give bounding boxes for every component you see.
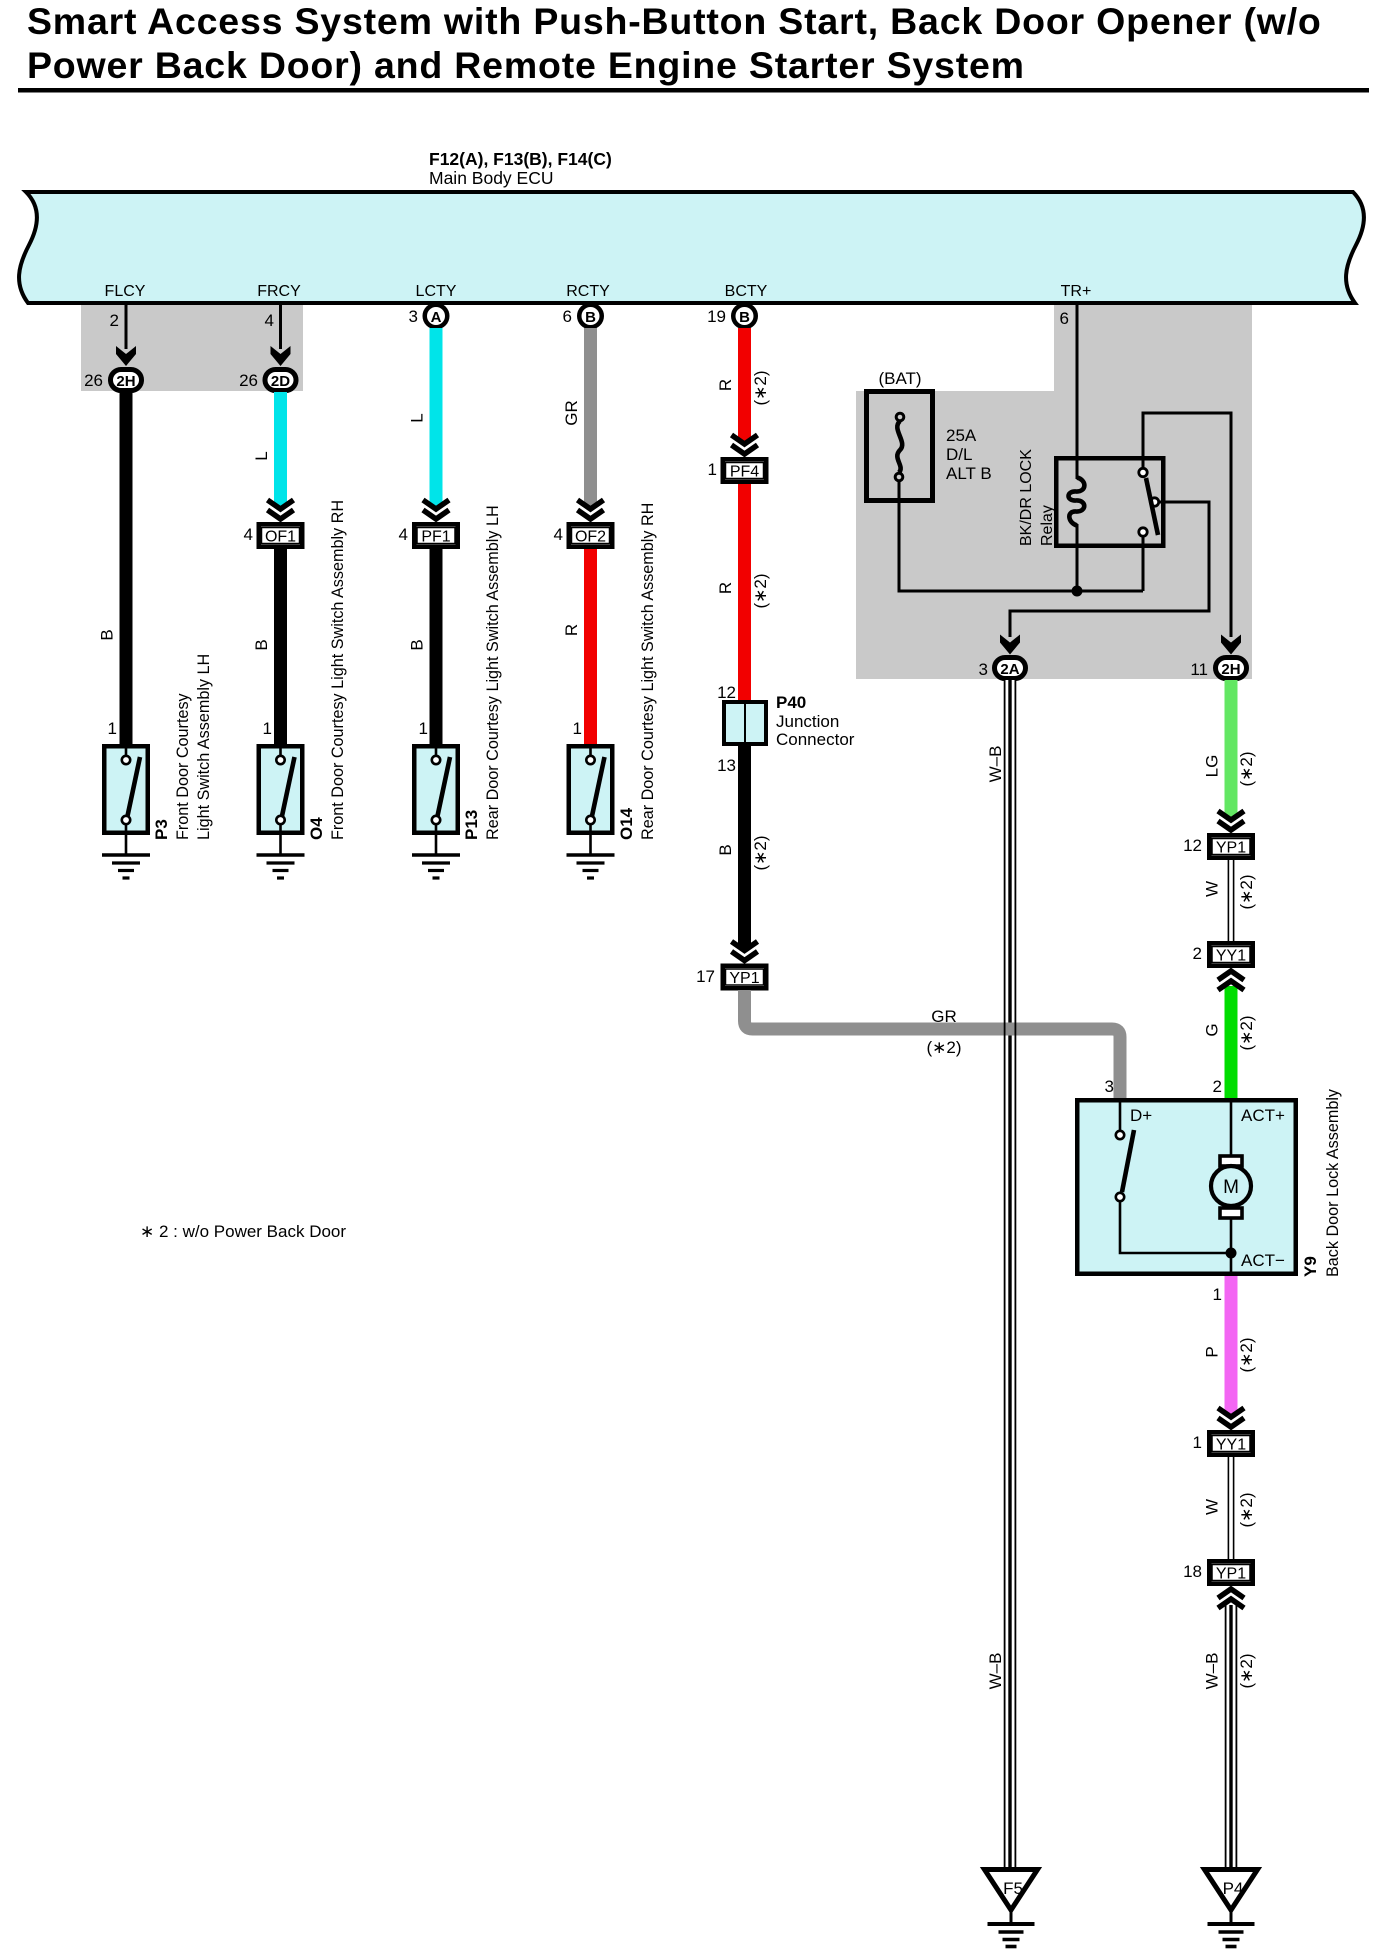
fuse rating label 25A D/L ALT B bbox=[946, 426, 992, 483]
svg-text:L: L bbox=[252, 451, 271, 460]
connector YY1 (1) bbox=[1209, 1432, 1253, 1455]
relay switch lever bbox=[1146, 478, 1158, 535]
svg-text:Connector: Connector bbox=[776, 730, 855, 749]
ground F5 bbox=[985, 1870, 1038, 1947]
chevron arrow out of YP1 (18) bbox=[1218, 1589, 1244, 1608]
svg-text:2: 2 bbox=[110, 311, 119, 330]
svg-text:ACT+: ACT+ bbox=[1241, 1106, 1285, 1125]
svg-text:B: B bbox=[716, 844, 735, 855]
wire B black FRCY bbox=[274, 549, 287, 746]
svg-text:YP1: YP1 bbox=[729, 970, 759, 987]
svg-text:YY1: YY1 bbox=[1216, 948, 1246, 965]
svg-text:2H: 2H bbox=[116, 373, 135, 390]
svg-text:G: G bbox=[1203, 1023, 1222, 1036]
svg-text:L: L bbox=[408, 413, 427, 422]
svg-text:P13: P13 bbox=[462, 810, 481, 840]
connector circle B bbox=[733, 305, 756, 328]
svg-text:(∗2): (∗2) bbox=[1237, 1653, 1256, 1688]
wire GR gray RCTY bbox=[584, 328, 597, 508]
svg-text:D/L: D/L bbox=[946, 445, 972, 464]
wire relay top contact to 2H bbox=[1143, 413, 1231, 637]
svg-text:LG: LG bbox=[1203, 755, 1222, 778]
ground P4 bbox=[1205, 1870, 1258, 1947]
chevron arrow into OF1 bbox=[268, 500, 294, 519]
door switch inside Y9 bbox=[1116, 1100, 1231, 1253]
connector OF1 bbox=[259, 524, 303, 547]
connector band: Main Body ECU F12/F13/F14 bbox=[19, 192, 1364, 303]
connector YP1 (12) bbox=[1209, 835, 1253, 858]
svg-text:Front Door Courtesy: Front Door Courtesy bbox=[174, 692, 192, 840]
svg-text:B: B bbox=[252, 639, 271, 650]
wire fuse bottom to junction bbox=[899, 481, 1143, 591]
svg-text:(∗2): (∗2) bbox=[1237, 751, 1256, 786]
label Main Body ECU F12(A) F13(B) F14(C) bbox=[429, 149, 612, 188]
svg-text:M: M bbox=[1223, 1177, 1239, 1198]
back door lock assembly Y9 bbox=[1077, 1100, 1296, 1274]
wire R red BCTY upper bbox=[738, 328, 751, 443]
svg-text:2: 2 bbox=[1193, 944, 1202, 963]
svg-text:ALT B: ALT B bbox=[946, 464, 992, 483]
svg-text:6: 6 bbox=[563, 307, 572, 326]
svg-text:(∗2): (∗2) bbox=[1237, 874, 1256, 909]
svg-text:12: 12 bbox=[1183, 836, 1202, 855]
svg-text:3: 3 bbox=[409, 307, 418, 326]
svg-text:OF1: OF1 bbox=[265, 529, 296, 546]
svg-text:Power Back Door) and Remote En: Power Back Door) and Remote Engine Start… bbox=[27, 44, 1025, 86]
chevron arrow out of YY1 bbox=[1218, 971, 1244, 990]
svg-text:W: W bbox=[1203, 881, 1222, 897]
svg-text:1: 1 bbox=[573, 719, 582, 738]
switch P13 Rear Door Courtesy Light Switch Assembly LH (with ground) bbox=[412, 746, 460, 878]
svg-text:6: 6 bbox=[1060, 309, 1069, 328]
svg-text:2: 2 bbox=[1213, 1077, 1222, 1096]
svg-text:W: W bbox=[1203, 1499, 1222, 1515]
chevron arrow into PF4 bbox=[732, 435, 758, 454]
svg-text:2A: 2A bbox=[1000, 661, 1019, 678]
wire R red BCTY lower bbox=[738, 484, 751, 700]
connector PF4 bbox=[723, 459, 767, 482]
wire LG light green 2H to YP1 bbox=[1225, 680, 1238, 819]
svg-text:GR: GR bbox=[562, 400, 581, 426]
svg-text:26: 26 bbox=[84, 371, 103, 390]
svg-text:1: 1 bbox=[1193, 1433, 1202, 1452]
svg-text:BK/DR LOCK: BK/DR LOCK bbox=[1018, 449, 1035, 546]
svg-text:LCTY: LCTY bbox=[416, 283, 457, 300]
svg-text:Light Switch Assembly LH: Light Switch Assembly LH bbox=[195, 654, 213, 840]
wire W-B (right, YP1 to P4) bbox=[1225, 1605, 1237, 1869]
svg-text:Back Door Lock Assembly: Back Door Lock Assembly bbox=[1324, 1088, 1342, 1277]
connector 2H (26) bbox=[111, 370, 142, 391]
relay switch contact mid bbox=[1150, 498, 1158, 506]
svg-text:4: 4 bbox=[399, 525, 408, 544]
svg-text:O4: O4 bbox=[307, 817, 326, 840]
label P40 Junction Connector bbox=[776, 693, 855, 749]
svg-text:YP1: YP1 bbox=[1216, 1566, 1246, 1583]
svg-text:Rear Door Courtesy Light Switc: Rear Door Courtesy Light Switch Assembly… bbox=[639, 503, 657, 840]
wire relay mid contact to 2A bbox=[1010, 502, 1209, 637]
arrow into 2H bbox=[116, 346, 136, 366]
svg-text:(∗2): (∗2) bbox=[1237, 1337, 1256, 1372]
svg-text:1: 1 bbox=[708, 460, 717, 479]
svg-text:B: B bbox=[98, 629, 117, 640]
connector 2D (26) bbox=[265, 370, 296, 391]
svg-text:3: 3 bbox=[979, 660, 988, 679]
wire G green YY1 to ACT+ bbox=[1225, 986, 1238, 1098]
switch O14 Rear Door Courtesy Light Switch Assembly RH (with ground) bbox=[567, 746, 615, 878]
svg-text:1: 1 bbox=[419, 719, 428, 738]
pin 6 wire TR+ bbox=[1076, 303, 1079, 479]
svg-text:PF1: PF1 bbox=[421, 529, 450, 546]
wire GR gray from YP1 to back door lock D+ bbox=[745, 990, 1121, 1098]
svg-text:4: 4 bbox=[265, 311, 274, 330]
fuse 25A D/L ALT B bbox=[867, 392, 933, 501]
svg-text:TR+: TR+ bbox=[1061, 283, 1092, 300]
svg-text:1: 1 bbox=[1213, 1285, 1222, 1304]
svg-text:RCTY: RCTY bbox=[566, 283, 610, 300]
junction dot bbox=[1072, 586, 1083, 597]
svg-text:4: 4 bbox=[554, 525, 563, 544]
label O14 bbox=[617, 503, 657, 840]
svg-text:Y9: Y9 bbox=[1301, 1256, 1320, 1277]
title bbox=[18, 0, 1369, 93]
svg-text:OF2: OF2 bbox=[575, 529, 606, 546]
svg-text:25A: 25A bbox=[946, 426, 977, 445]
svg-text:F5: F5 bbox=[1003, 1879, 1023, 1898]
wire L cyan FRCY bbox=[274, 392, 287, 508]
chevron arrow into OF2 bbox=[578, 500, 604, 519]
connector YY1 (2) bbox=[1209, 943, 1253, 966]
svg-text:R: R bbox=[716, 379, 735, 391]
wire B black FLCY bbox=[120, 392, 133, 746]
gray shade region left (behind 2H/2D connectors) bbox=[81, 303, 303, 391]
svg-text:1: 1 bbox=[108, 719, 117, 738]
svg-text:11: 11 bbox=[1190, 660, 1208, 679]
svg-text:R: R bbox=[716, 582, 735, 594]
svg-text:YP1: YP1 bbox=[1216, 840, 1246, 857]
relay coil bbox=[1069, 478, 1085, 526]
pin 4 wire bbox=[279, 303, 282, 349]
svg-text:Rear Door Courtesy Light Switc: Rear Door Courtesy Light Switch Assembly… bbox=[484, 505, 502, 840]
connector circle B bbox=[579, 305, 602, 328]
junction connector P40 bbox=[724, 702, 766, 744]
svg-text:ACT−: ACT− bbox=[1241, 1251, 1285, 1270]
connector YP1 (17) bbox=[723, 966, 767, 989]
relay BK/DR LOCK box bbox=[1056, 458, 1163, 546]
svg-text:2D: 2D bbox=[271, 373, 290, 390]
svg-text:A: A bbox=[431, 309, 442, 326]
label P3 bbox=[152, 654, 213, 840]
wire B black LCTY bbox=[430, 549, 443, 746]
svg-text:Junction: Junction bbox=[776, 712, 839, 731]
svg-text:P: P bbox=[1203, 1346, 1222, 1357]
label Y9 Back Door Lock Assembly bbox=[1301, 1088, 1342, 1277]
connector 2H (11) bbox=[1216, 658, 1247, 679]
switch P3 Front Door Courtesy Light Switch Assembly LH (with ground) bbox=[102, 746, 150, 878]
relay coil bottom wire bbox=[1076, 524, 1079, 591]
svg-text:(∗2): (∗2) bbox=[751, 835, 770, 870]
svg-text:P3: P3 bbox=[152, 819, 171, 840]
svg-text:(∗2): (∗2) bbox=[751, 370, 770, 405]
svg-text:2H: 2H bbox=[1221, 661, 1240, 678]
svg-text:FLCY: FLCY bbox=[105, 283, 146, 300]
connector 2A (3) bbox=[995, 658, 1026, 679]
svg-text:4: 4 bbox=[244, 525, 253, 544]
svg-text:3: 3 bbox=[1105, 1077, 1114, 1096]
arrow into 2D bbox=[271, 346, 291, 366]
chevron arrow into YY1 (1) bbox=[1218, 1408, 1244, 1427]
switch O4 Front Door Courtesy Light Switch Assembly RH (with ground) bbox=[257, 746, 305, 878]
svg-text:17: 17 bbox=[696, 967, 715, 986]
svg-text:P4: P4 bbox=[1223, 1879, 1244, 1898]
svg-text:B: B bbox=[585, 309, 596, 326]
svg-text:26: 26 bbox=[239, 371, 258, 390]
svg-text:18: 18 bbox=[1183, 1562, 1202, 1581]
svg-text:Front Door Courtesy Light Swit: Front Door Courtesy Light Switch Assembl… bbox=[329, 500, 347, 840]
pin 2 wire bbox=[125, 303, 128, 349]
svg-text:Main Body ECU: Main Body ECU bbox=[429, 168, 554, 188]
chevron arrow into PF1 bbox=[423, 500, 449, 519]
wire W white YP1 to YY1 bbox=[1228, 860, 1234, 941]
svg-text:W–B: W–B bbox=[986, 1653, 1005, 1690]
svg-text:W–B: W–B bbox=[986, 746, 1005, 783]
svg-text:19: 19 bbox=[707, 307, 726, 326]
svg-text:R: R bbox=[562, 624, 581, 636]
svg-text:B: B bbox=[739, 309, 750, 326]
svg-text:12: 12 bbox=[717, 683, 736, 702]
svg-text:(∗2): (∗2) bbox=[1237, 1492, 1256, 1527]
arrow into 2H bbox=[1221, 635, 1241, 655]
arrow into 2A bbox=[1000, 635, 1020, 655]
svg-text:GR: GR bbox=[931, 1007, 957, 1026]
svg-text:(∗2): (∗2) bbox=[1237, 1015, 1256, 1050]
motor M inside Y9 bbox=[1211, 1100, 1251, 1276]
svg-text:YY1: YY1 bbox=[1216, 1437, 1246, 1454]
connector circle A bbox=[425, 305, 448, 328]
svg-text:BCTY: BCTY bbox=[725, 283, 768, 300]
svg-text:B: B bbox=[408, 639, 427, 650]
relay switch contact bottom bbox=[1139, 528, 1147, 536]
wire W-B body (left, 2A to F5) bbox=[1004, 680, 1016, 1869]
svg-text:P40: P40 bbox=[776, 693, 806, 712]
label BK/DR LOCK Relay bbox=[1018, 449, 1056, 546]
chevron arrow into YP1 (12) bbox=[1218, 811, 1244, 830]
svg-text:(∗2): (∗2) bbox=[926, 1038, 961, 1057]
wire R red RCTY bbox=[584, 549, 597, 746]
label P13 bbox=[462, 505, 502, 840]
svg-text:Relay: Relay bbox=[1039, 505, 1056, 546]
svg-text:W–B: W–B bbox=[1203, 1653, 1222, 1690]
wire relay bottom contact down bbox=[1142, 536, 1145, 591]
svg-text:D+: D+ bbox=[1130, 1106, 1152, 1125]
wire L cyan LCTY bbox=[430, 328, 443, 508]
wire W-B rails (left) bbox=[1005, 680, 1016, 1869]
wire P pink ACT- to YY1 bbox=[1225, 1276, 1238, 1416]
svg-text:(BAT): (BAT) bbox=[878, 369, 921, 388]
svg-text:PF4: PF4 bbox=[730, 464, 759, 481]
connector PF1 bbox=[414, 524, 458, 547]
svg-text:13: 13 bbox=[717, 756, 736, 775]
connector OF2 bbox=[569, 524, 613, 547]
svg-text:FRCY: FRCY bbox=[257, 283, 301, 300]
junction dot ACT- bbox=[1226, 1248, 1237, 1259]
gray shade region right (relay / battery area) bbox=[856, 303, 1252, 679]
relay switch contact top bbox=[1139, 468, 1147, 476]
wire W white YY1 to YP1 bbox=[1228, 1457, 1234, 1559]
svg-text:∗ 2 : w/o Power Back Door: ∗ 2 : w/o Power Back Door bbox=[140, 1222, 346, 1241]
svg-text:O14: O14 bbox=[617, 807, 636, 840]
connector YP1 (18) bbox=[1209, 1561, 1253, 1584]
svg-text:(∗2): (∗2) bbox=[751, 573, 770, 608]
chevron arrow into YP1 bbox=[732, 942, 758, 961]
svg-text:F12(A), F13(B), F14(C): F12(A), F13(B), F14(C) bbox=[429, 149, 612, 169]
svg-text:1: 1 bbox=[263, 719, 272, 738]
wire B black BCTY bbox=[738, 746, 751, 949]
svg-text:Smart Access System with Push-: Smart Access System with Push-Button Sta… bbox=[27, 0, 1322, 42]
label O4 bbox=[307, 500, 347, 840]
